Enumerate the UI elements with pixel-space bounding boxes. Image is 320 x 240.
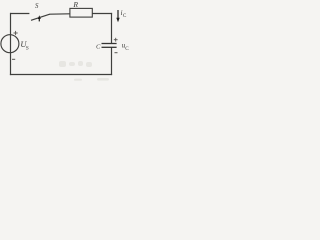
capacitor C plates (102, 43, 117, 45)
+ polarity of source (14, 31, 18, 35)
wire: right vertical lower (capacitor to bottom) (111, 47, 113, 75)
wire: bottom horizontal (10, 74, 112, 76)
background (0, 0, 133, 84)
faint print bleed smudges (59, 61, 109, 81)
svg-text:S: S (26, 45, 29, 51)
+ polarity of capacitor (114, 38, 118, 42)
svg-text:C: C (123, 13, 127, 19)
voltage source U_S circle (1, 35, 19, 53)
switch S blade (31, 14, 50, 20)
wire: resistor to top-right corner (92, 13, 112, 15)
current arrow i_C (116, 10, 119, 22)
svg-text:C: C (125, 46, 129, 52)
svg-text:C: C (96, 43, 101, 50)
svg-text:S: S (35, 3, 39, 10)
wire: switch right lead to resistor (50, 13, 70, 15)
resistor R box (70, 8, 92, 17)
switch closing arrow (38, 15, 41, 21)
- polarity of capacitor (115, 52, 118, 54)
wire: top-left horizontal segment to switch (10, 13, 29, 15)
svg-text:R: R (72, 0, 78, 9)
wire: left vertical (through source) (10, 13, 12, 75)
wire: right vertical upper (corner to capacitor) (111, 13, 113, 44)
- polarity of source (12, 58, 15, 60)
